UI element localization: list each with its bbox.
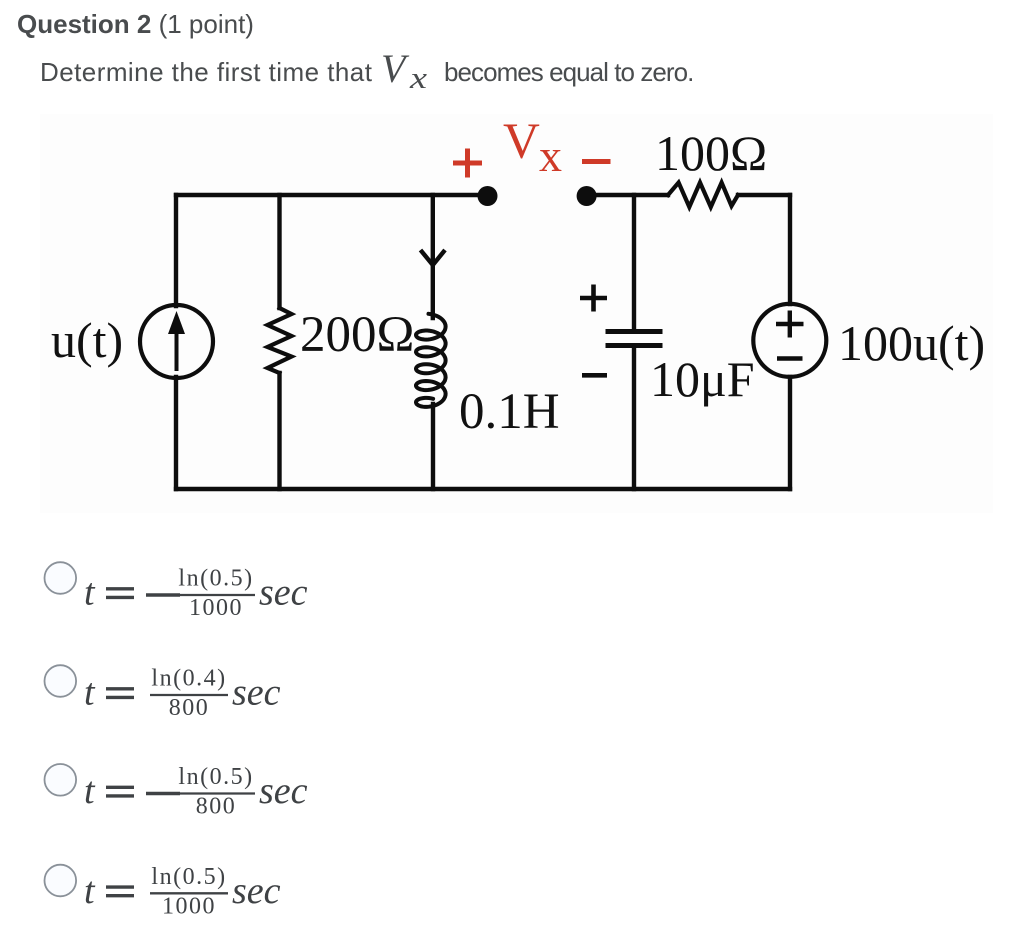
svg-text:200Ω: 200Ω <box>300 307 414 363</box>
wire: right branch below voltage source <box>788 377 792 489</box>
svg-text:t: t <box>84 770 96 812</box>
wire: inductor L1 branch bottom lead <box>431 404 435 489</box>
svg-text:t: t <box>84 672 96 714</box>
label Vx plus sign (red) <box>453 149 482 178</box>
inductor L1 coil <box>416 314 446 407</box>
wire: resistor R1 branch bottom lead <box>277 373 281 489</box>
node A dot (Vx + terminal) <box>478 186 498 206</box>
wire: capacitor C1 branch bottom lead <box>632 348 636 489</box>
svg-text:ln(0.5): ln(0.5) <box>178 764 253 790</box>
capacitor C1 bottom plate <box>608 343 660 348</box>
svg-text:becomes equal to zero.: becomes equal to zero. <box>444 57 693 87</box>
capacitor C1 top plate <box>608 329 660 334</box>
svg-text:Determine the first time that: Determine the first time that <box>40 57 373 87</box>
voltage source V1 minus sign <box>777 356 803 360</box>
svg-text:sec: sec <box>232 672 281 714</box>
resistor R2 100ohm zigzag <box>668 183 738 208</box>
wire: inductor L1 branch top lead <box>431 195 435 318</box>
svg-text:u(t): u(t) <box>51 312 123 368</box>
wire: resistor R1 branch top lead <box>277 195 281 308</box>
wire: top rail left section <box>176 193 487 197</box>
svg-text:sec: sec <box>232 870 281 912</box>
voltage source V1 circle <box>753 304 826 377</box>
svg-text:1000: 1000 <box>189 595 243 621</box>
current source U1 arrow <box>168 311 185 371</box>
resistor R1 200ohm zigzag <box>268 308 292 373</box>
svg-text:ln(0.5): ln(0.5) <box>178 566 253 592</box>
option 4 math <box>84 864 281 920</box>
svg-text:100Ω: 100Ω <box>655 125 767 181</box>
svg-text:x: x <box>409 60 428 95</box>
node B dot (Vx - terminal) <box>577 186 597 206</box>
svg-text:x: x <box>539 130 562 181</box>
wire: left branch above current source <box>174 195 178 306</box>
svg-text:1000: 1000 <box>162 893 216 919</box>
svg-text:V: V <box>503 114 540 170</box>
wire: top rail after 100ohm resistor <box>738 193 790 197</box>
question body text <box>40 46 693 95</box>
svg-text:800: 800 <box>196 794 237 820</box>
label Vx minus sign (red) <box>582 159 611 164</box>
option 1 math <box>84 566 308 622</box>
circuit image background <box>40 114 993 513</box>
wire: right branch above voltage source <box>788 195 792 304</box>
radio button option 4 <box>45 865 77 897</box>
inductor L1 current arrow chevron <box>421 250 446 265</box>
wire: left branch below current source <box>174 377 178 489</box>
wire: capacitor C1 branch top lead <box>632 195 636 330</box>
option 2 math <box>84 666 281 722</box>
svg-text:sec: sec <box>259 572 308 614</box>
wire: bottom rail <box>176 487 790 491</box>
svg-text:t: t <box>84 572 96 614</box>
svg-text:0.1H: 0.1H <box>459 384 560 440</box>
capacitor C1 plus polarity sign <box>580 285 607 312</box>
capacitor C1 minus polarity sign <box>582 373 607 378</box>
svg-text:ln(0.5): ln(0.5) <box>151 864 226 890</box>
radio button option 1 <box>45 562 77 594</box>
radio button option 3 <box>45 764 77 796</box>
svg-text:800: 800 <box>169 695 210 721</box>
svg-text:Question 2 (1 point): Question 2 (1 point) <box>17 9 254 39</box>
current source U1 circle <box>140 305 213 378</box>
voltage source V1 plus sign <box>776 311 804 338</box>
svg-text:10μF: 10μF <box>650 351 755 407</box>
label Vx (red) <box>503 114 562 181</box>
wire: top rail right section <box>587 193 668 197</box>
radio button option 2 <box>45 665 77 697</box>
svg-text:t: t <box>84 870 96 912</box>
svg-text:ln(0.4): ln(0.4) <box>151 666 226 692</box>
svg-text:100u(t): 100u(t) <box>838 315 985 371</box>
option 3 math <box>84 764 308 820</box>
svg-text:sec: sec <box>259 770 308 812</box>
